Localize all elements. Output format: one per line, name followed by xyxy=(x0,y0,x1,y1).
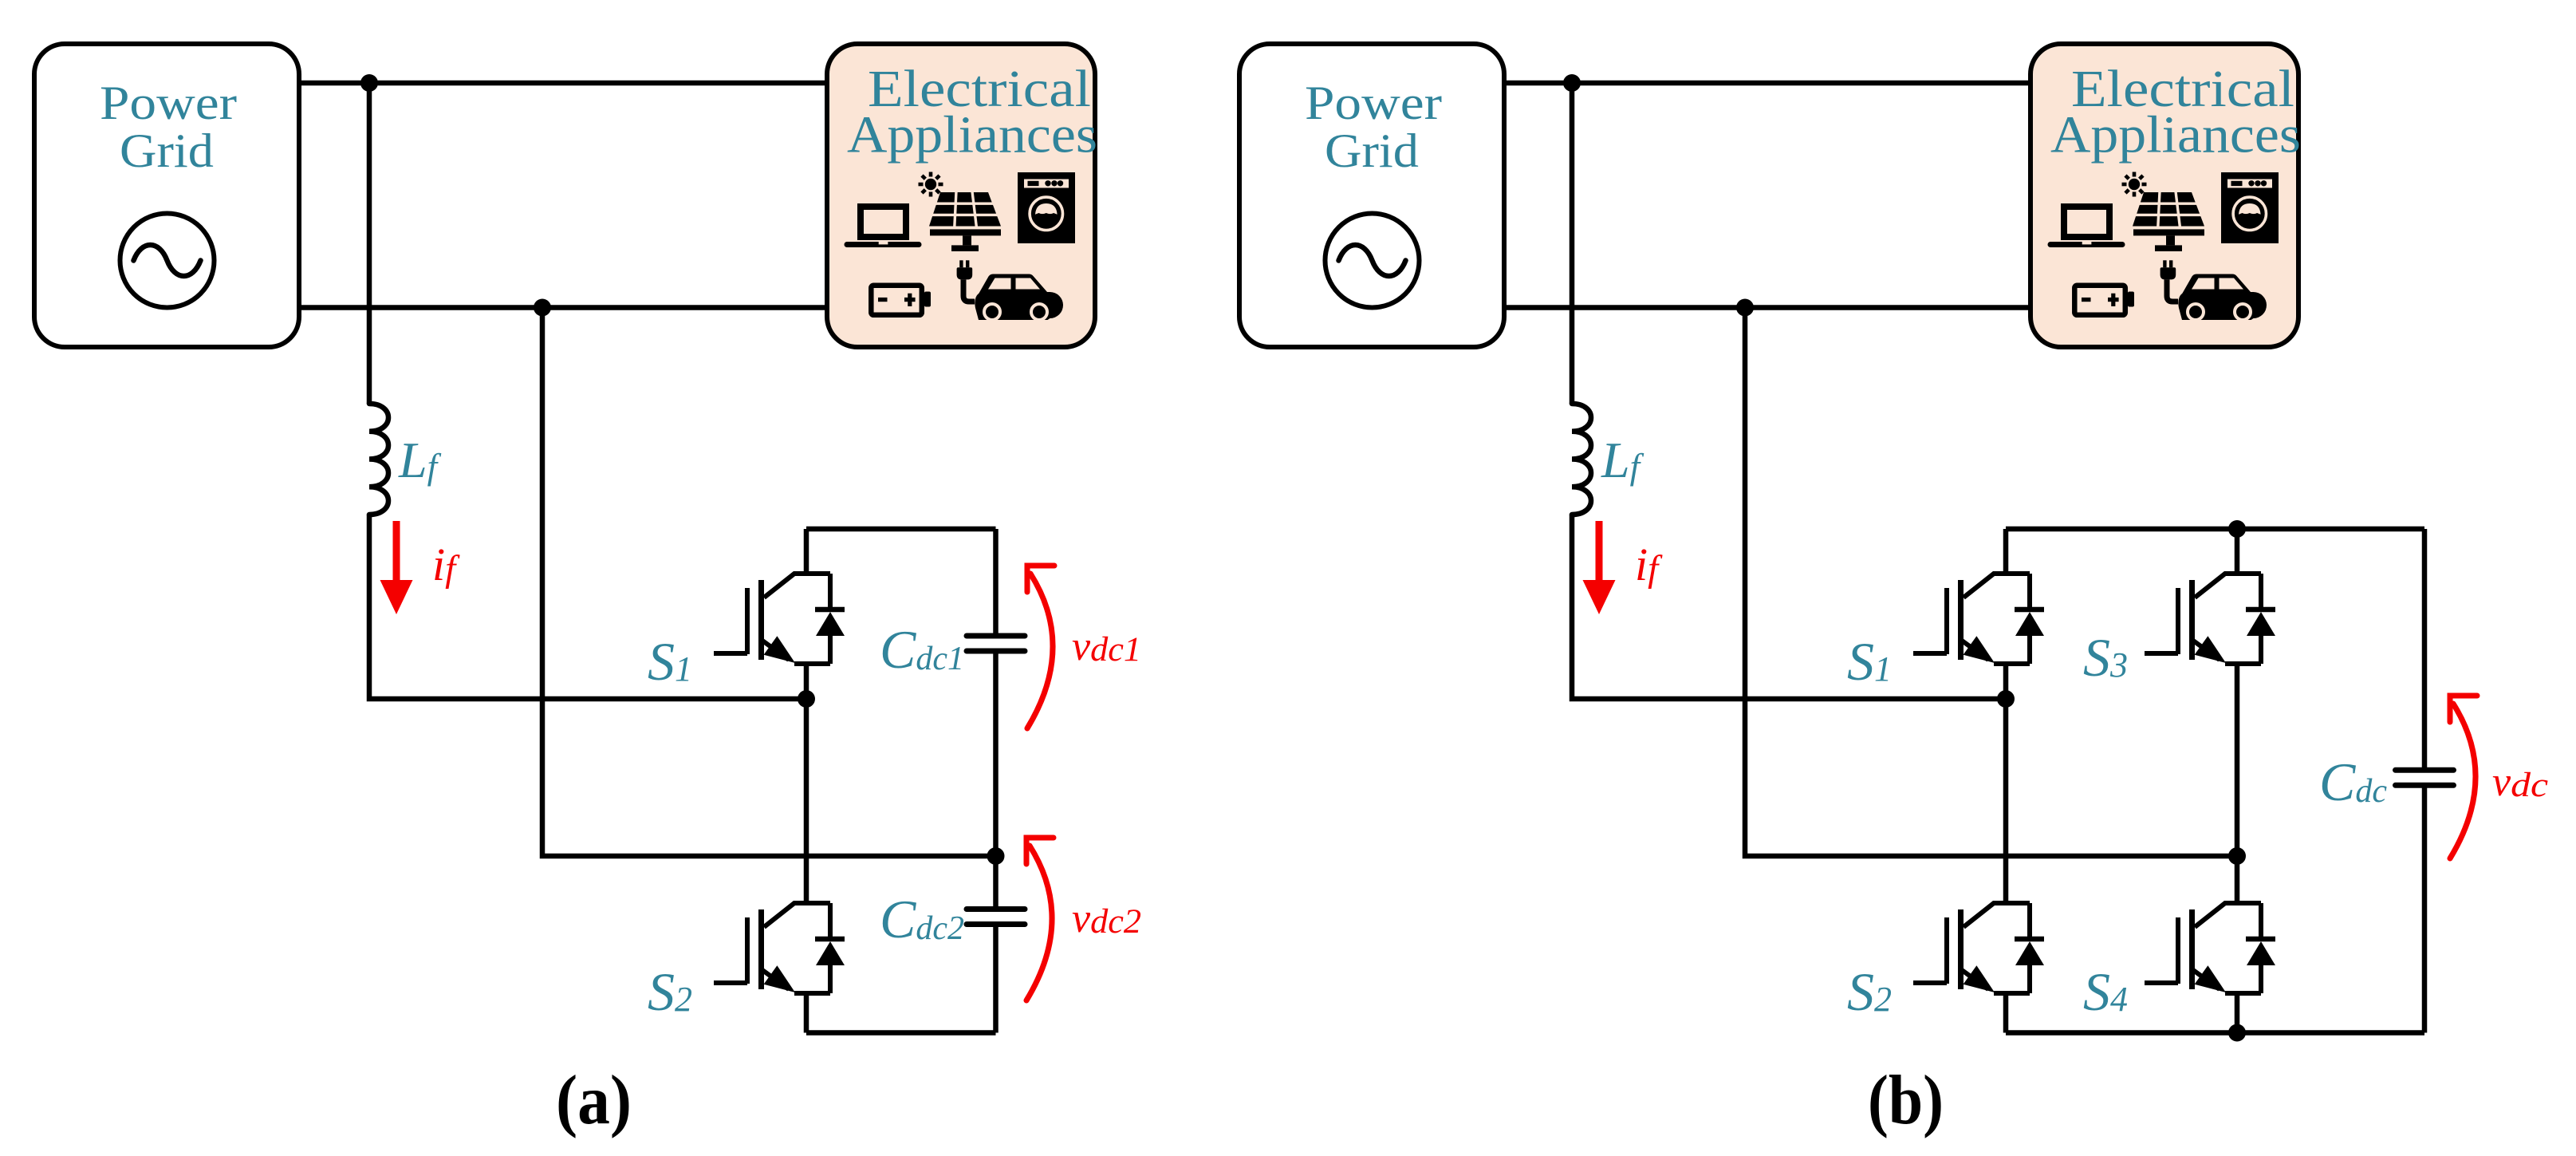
wire: phase drop to inductor xyxy=(367,83,372,404)
wire: left leg segments xyxy=(804,529,809,1033)
voltage arrow vdc2 xyxy=(1026,838,1054,1000)
capacitor Cdc1 xyxy=(967,636,1025,651)
node: neutral junction xyxy=(534,299,551,317)
wire: phase drop to inductor xyxy=(1570,83,1575,404)
wire: grid to appliances top xyxy=(1504,81,2028,86)
transistor S1 xyxy=(714,574,845,664)
wire: neutral drop to capacitor midpoint xyxy=(542,308,996,857)
svg-text:vdc2: vdc2 xyxy=(1072,896,1141,941)
transistor S2 xyxy=(714,903,845,993)
transistor S2 xyxy=(1913,903,2044,993)
wire: bridge top rail xyxy=(2006,527,2424,532)
svg-text:Lf: Lf xyxy=(1601,432,1644,488)
inductor Lf xyxy=(369,404,388,515)
arrow if xyxy=(380,521,413,614)
wire: bridge bottom rail xyxy=(2006,1030,2424,1036)
wire: leg1 segments xyxy=(2003,529,2009,1033)
node: capacitor midpoint xyxy=(987,847,1005,865)
svg-text:S1: S1 xyxy=(648,631,692,692)
svg-text:Cdc2: Cdc2 xyxy=(880,889,964,949)
power grid box G2 xyxy=(1239,44,1504,347)
capacitor Cdc xyxy=(2396,770,2454,785)
wire: grid to appliances bottom xyxy=(1504,305,2028,310)
svg-text:vdc: vdc xyxy=(2492,759,2548,805)
svg-text:Lf: Lf xyxy=(398,432,442,488)
transistor S3 xyxy=(2145,574,2275,664)
wire: grid to appliances bottom xyxy=(299,305,827,310)
wire: inductor to bridge midpoint xyxy=(1572,515,2006,699)
electrical appliances box xyxy=(2030,44,2301,347)
wire: neutral drop to leg2 midpoint xyxy=(1745,308,2237,857)
svg-text:(b): (b) xyxy=(1868,1062,1944,1139)
svg-text:S1: S1 xyxy=(1847,631,1892,692)
node: bridge midpoint xyxy=(798,690,815,708)
electrical appliances box xyxy=(827,44,1097,347)
wire: Cdc branch segments xyxy=(2422,529,2428,1033)
svg-text:S3: S3 xyxy=(2083,627,2128,688)
svg-text:(a): (a) xyxy=(556,1062,632,1139)
node: leg2 top xyxy=(2228,520,2246,538)
transistor S4 xyxy=(2145,903,2275,993)
node: phase junction xyxy=(360,74,378,92)
wire: bridge bottom rail xyxy=(806,1030,996,1036)
svg-text:if: if xyxy=(1635,539,1663,590)
svg-text:Cdc1: Cdc1 xyxy=(880,619,964,680)
capacitor Cdc2 xyxy=(967,909,1025,925)
voltage arrow vdc xyxy=(2450,696,2477,858)
node: leg2 midpoint xyxy=(2228,847,2246,865)
wire: leg2 segments xyxy=(2235,529,2240,1033)
node: leg1 midpoint xyxy=(1997,690,2015,708)
wire: bridge top rail xyxy=(806,527,996,532)
node: neutral junction xyxy=(1736,299,1754,317)
svg-text:vdc1: vdc1 xyxy=(1072,624,1141,669)
wire: grid to appliances top xyxy=(299,81,827,86)
arrow if xyxy=(1583,521,1616,614)
transistor S1 xyxy=(1913,574,2044,664)
node: leg2 bottom xyxy=(2228,1024,2246,1042)
svg-text:S4: S4 xyxy=(2083,961,2128,1022)
svg-text:if: if xyxy=(432,539,460,590)
svg-text:S2: S2 xyxy=(648,961,692,1022)
wire: inductor to bridge midpoint xyxy=(369,515,806,699)
wire: capacitor branch segments xyxy=(993,529,998,1033)
svg-text:S2: S2 xyxy=(1847,961,1892,1022)
node: phase junction xyxy=(1563,74,1581,92)
inductor Lf xyxy=(1572,404,1591,515)
voltage arrow vdc1 xyxy=(1027,566,1054,728)
svg-text:Cdc: Cdc xyxy=(2319,752,2387,812)
power grid box G1 xyxy=(34,44,299,347)
